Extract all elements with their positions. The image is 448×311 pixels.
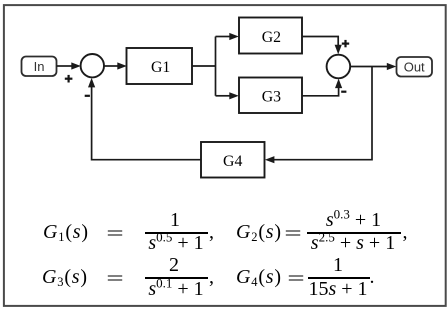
block G3 — [239, 78, 302, 114]
equation G4 equals — [290, 269, 301, 289]
svg-text:G2: G2 — [262, 29, 281, 46]
equation G2 denominator — [311, 233, 395, 253]
equation G3 equals — [109, 269, 120, 289]
wire G1 to branch node — [192, 65, 216, 67]
equation G4 numerator — [333, 255, 343, 275]
feedback wire G4 to S1 — [88, 78, 201, 160]
minus sign at S2 — [341, 91, 346, 93]
equation G2 equals — [287, 224, 298, 244]
equation G3 numerator — [169, 255, 179, 275]
equation G2 numerator — [326, 210, 381, 230]
wire G3 to summing junction S2 — [302, 79, 342, 96]
equation G1(s) label — [43, 222, 89, 242]
input port In — [22, 57, 57, 77]
summing junction S1 — [81, 54, 104, 77]
svg-text:G4: G4 — [223, 153, 242, 170]
equation G2(s) label — [236, 222, 282, 242]
equation G4 denominator — [308, 279, 367, 299]
svg-text:G3: G3 — [262, 89, 281, 106]
plus sign at S2 — [342, 40, 349, 47]
wire branch to block G2 — [216, 33, 239, 40]
summing junction S2 — [327, 55, 351, 79]
svg-text:In: In — [34, 59, 45, 74]
equation G1 fraction bar — [145, 232, 208, 234]
equation G3 fraction bar — [145, 277, 208, 279]
wire In to summing junction S1 — [57, 62, 81, 69]
wire S2 to Out — [350, 63, 396, 70]
branch vertical wire — [215, 37, 217, 96]
feedback wire from output node down — [274, 67, 372, 160]
equation G3 denominator — [148, 279, 203, 299]
comma after G3 equation — [209, 267, 214, 287]
arrow into G4 — [265, 156, 275, 163]
equation G1 numerator — [170, 210, 180, 230]
equation G4(s) label — [236, 267, 282, 287]
minus sign at S1 — [85, 95, 90, 97]
wire branch to block G3 — [216, 92, 239, 99]
equation G4 fraction bar — [308, 277, 370, 279]
equation G1 denominator — [148, 233, 203, 253]
block G4 — [201, 142, 265, 178]
period after G4 equation — [370, 267, 375, 287]
svg-text:G1: G1 — [151, 59, 170, 76]
equation G2 fraction bar — [307, 232, 401, 234]
wire G2 to summing junction S2 — [302, 37, 342, 55]
block G1 — [127, 48, 193, 84]
comma after G2 equation — [403, 222, 408, 242]
equation G3(s) label — [42, 267, 88, 287]
output port Out — [397, 57, 433, 77]
wire S1 to block G1 — [104, 62, 127, 69]
equation G1 equals — [109, 224, 120, 244]
plus sign at S1 — [65, 75, 73, 83]
svg-text:Out: Out — [404, 59, 425, 74]
comma after G1 equation — [209, 222, 214, 242]
block G2 — [239, 18, 302, 54]
